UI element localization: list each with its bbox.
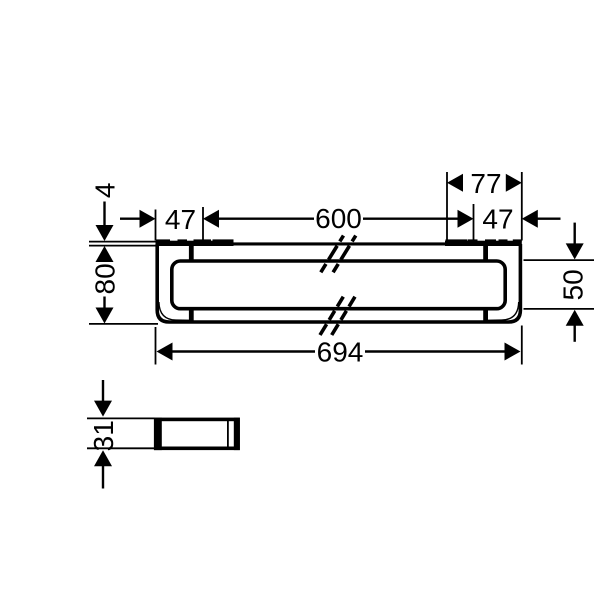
dim 694 right arrow [505, 343, 521, 361]
ext line plate top [89, 241, 156, 243]
dim 47 left tail line [120, 217, 141, 219]
side view outline [156, 419, 238, 448]
ext line bar right lower [521, 326, 523, 365]
svg-text:31: 31 [88, 420, 119, 451]
dim 694 line left [172, 350, 315, 352]
dim 600 line left [218, 217, 314, 219]
wall plate right [445, 241, 522, 246]
side view plate inner edge [227, 421, 229, 447]
break mark top slash 1 [321, 236, 344, 273]
dim 80 up arrow [96, 246, 114, 262]
svg-text:694: 694 [317, 336, 364, 367]
ext line inner top right [524, 259, 595, 261]
dim 4 down arrow [96, 225, 114, 241]
dim 80 line [103, 297, 105, 309]
ext line inner bottom right [524, 308, 595, 310]
dim 50 down arrow [566, 243, 584, 259]
break mark top slash 2 [333, 236, 356, 273]
dim 31 down arrow [94, 401, 112, 417]
ext line side view top [87, 417, 155, 419]
svg-text:77: 77 [470, 168, 501, 199]
right post upper [483, 246, 488, 263]
dim 31 lower tail [102, 465, 104, 488]
break mark bottom slash 2 [332, 297, 355, 335]
svg-text:4: 4 [90, 183, 121, 199]
ext line bar bottom left [89, 323, 158, 325]
ext line side view bottom [87, 447, 155, 449]
dim 31 up arrow [94, 450, 112, 466]
ext line bar right upper [521, 172, 523, 241]
dim 600 line right [363, 217, 459, 219]
dim 31 upper tail [102, 380, 104, 402]
left post lower [189, 307, 194, 322]
break mark bottom slash 1 [320, 297, 343, 335]
dim 50 lower tail [574, 325, 576, 342]
side view front face band [154, 418, 162, 450]
right post lower [483, 307, 488, 322]
towel bar outer body [157, 244, 520, 322]
dim 50 up arrow [566, 310, 584, 326]
svg-text:50: 50 [558, 269, 589, 300]
ext line left mount [202, 207, 204, 241]
left post upper [189, 246, 194, 263]
dim 694 left arrow [157, 343, 173, 361]
dim 50 upper tail [574, 223, 576, 245]
ext line right plate left edge [446, 172, 448, 241]
svg-text:47: 47 [165, 204, 196, 235]
dim 694 line right [365, 350, 505, 352]
wall plate left [156, 241, 234, 246]
ext line bar left lower [155, 327, 157, 365]
ext line right mount [473, 204, 475, 241]
dim 77 right arrow [506, 174, 522, 192]
left corner fillet [159, 302, 190, 320]
dim 600 left arrow [203, 210, 219, 228]
side view wall plate band [234, 418, 240, 450]
top edge middle broken section [233, 242, 447, 245]
svg-text:600: 600 [315, 203, 362, 234]
ext line plate bottom [89, 245, 156, 247]
inner opening [172, 261, 505, 309]
right corner fillet [488, 302, 519, 320]
svg-text:47: 47 [482, 204, 513, 235]
dim 47 left arrow right-pointing [140, 210, 156, 228]
dim 47 right arrow left-pointing [522, 210, 538, 228]
dim 4 line [103, 202, 105, 227]
ext line bar left upper [155, 210, 157, 241]
dim 77 left arrow [447, 174, 463, 192]
dim 80 down arrow [96, 308, 114, 324]
dim 600 right arrow [458, 210, 474, 228]
dim 47 right tail line [537, 217, 561, 219]
svg-text:80: 80 [90, 263, 121, 294]
